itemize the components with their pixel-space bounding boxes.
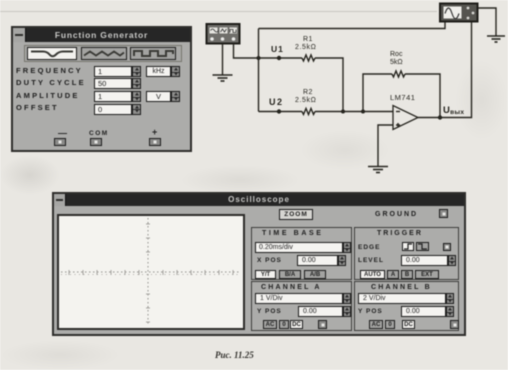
wire: top feed to oscilloscope channel A <box>259 22 446 29</box>
wire: U2 row into R2 <box>259 111 303 113</box>
svg-text:R2: R2 <box>303 89 313 96</box>
waveform selector frame <box>24 45 182 62</box>
square wave button <box>130 47 176 60</box>
svg-text:R1: R1 <box>303 36 313 43</box>
junction at trunk / FG feed <box>257 56 261 60</box>
wire: vertical trunk node <box>258 29 260 112</box>
AMPLITUDE row <box>16 91 80 100</box>
wire: R1 to inverting node <box>315 58 343 112</box>
CHANNEL B panel <box>354 281 459 331</box>
resistor R2 2.5kΩ <box>302 109 315 115</box>
TIME BASE panel <box>251 227 352 280</box>
scope title bar <box>54 194 464 206</box>
node Uout <box>438 115 442 119</box>
CHANNEL A panel <box>251 281 352 331</box>
oscilloscope icon <box>440 4 478 22</box>
wire: non-inverting input to ground <box>378 125 393 166</box>
faint scan smudges <box>0 155 60 195</box>
svg-text:2.5kΩ: 2.5kΩ <box>295 44 316 51</box>
FG terminals <box>54 138 66 146</box>
ground (right of oscilloscope) <box>487 36 505 42</box>
svg-text:LM741: LM741 <box>390 93 415 102</box>
svg-text:Uвых: Uвых <box>443 105 464 116</box>
wire: U1 row into R1 <box>259 57 303 59</box>
FG system menu box <box>13 28 26 42</box>
screen horizontal axis dots <box>61 271 241 273</box>
wire: FG common terminal down to ground <box>222 44 224 75</box>
svg-text:5kΩ: 5kΩ <box>390 59 403 66</box>
TRIGGER panel <box>354 227 459 280</box>
wire: scope ground terminal to ground <box>478 8 496 36</box>
figure caption <box>215 350 254 360</box>
screen vertical axis dots <box>147 218 149 326</box>
triangle wave button <box>81 47 127 60</box>
ZOOM button <box>279 209 313 220</box>
function generator icon <box>207 24 240 44</box>
wire: feedback right side down to output <box>405 74 440 118</box>
FG title bar <box>13 28 190 42</box>
ground terminal <box>439 209 448 218</box>
svg-text:U2: U2 <box>269 97 284 107</box>
resistor R1 2.5kΩ <box>302 55 315 61</box>
ground (op-amp + input) <box>368 167 388 173</box>
node U1 <box>277 56 281 60</box>
scope screen <box>57 214 245 330</box>
resistor Roc 5kΩ <box>392 71 405 77</box>
FREQUENCY row <box>16 66 83 75</box>
ground (below function generator) <box>213 75 233 81</box>
OFFSET row <box>16 103 59 112</box>
wire: op-amp output to Uout node and up to scope <box>418 22 472 118</box>
GROUND label <box>375 211 418 218</box>
node U2 <box>277 109 281 113</box>
DUTY CYCLE row <box>16 78 86 87</box>
svg-text:U1: U1 <box>271 44 284 54</box>
junction: feedback branch joins <box>361 110 365 114</box>
wire: R2 to op-amp inverting input <box>315 111 393 113</box>
op-amp LM741 <box>390 93 418 130</box>
junction: R1 branch joins <box>341 110 345 114</box>
sine wave button (selected) <box>27 47 77 60</box>
wire: FG + terminal down then right to trunk <box>234 44 259 59</box>
svg-text:2.5kΩ: 2.5kΩ <box>295 97 316 104</box>
svg-text:Roc: Roc <box>390 51 403 58</box>
faint scan line across top of page <box>0 11 437 12</box>
output labels - COM + <box>58 128 67 138</box>
wire: feedback loop left/top through Roc <box>363 74 392 112</box>
scope system menu box <box>54 194 66 206</box>
